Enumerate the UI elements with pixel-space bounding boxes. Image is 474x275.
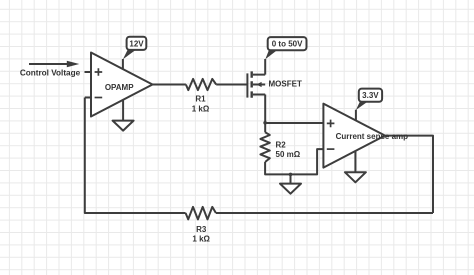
svg-text:Control Voltage: Control Voltage	[20, 68, 81, 77]
control voltage input arrow	[29, 61, 79, 68]
wire V+ pin of OPAMP	[122, 59, 124, 69]
resistor R3	[186, 207, 216, 220]
wire OPAMP - input stub	[85, 97, 91, 99]
op-amp current sense amp (U2)	[323, 104, 385, 168]
wire MOSFET drain up	[264, 59, 266, 75]
svg-text:1 kΩ: 1 kΩ	[192, 234, 210, 243]
wire ground stem at R2 bottom	[290, 174, 292, 183]
power label 3.3V callout	[356, 89, 382, 110]
wire R3 to right vertical	[216, 212, 433, 214]
node junction at R2 bottom	[289, 173, 293, 177]
svg-text:0 to 50V: 0 to 50V	[272, 40, 303, 49]
wire V+ pin of current sense amp	[355, 110, 357, 121]
resistor R2	[260, 132, 269, 162]
svg-text:Current sense amp: Current sense amp	[336, 132, 409, 141]
power label 12V callout	[123, 37, 146, 60]
wire + input stub of OPAMP	[85, 71, 92, 73]
wire feedback left vertical and bottom run to R3	[85, 98, 186, 214]
svg-text:3.3V: 3.3V	[362, 91, 379, 100]
svg-text:R1: R1	[195, 95, 206, 104]
svg-text:R2: R2	[276, 141, 287, 150]
svg-text:MOSFET: MOSFET	[269, 79, 302, 88]
wire MOSFET source down to junction and R2	[264, 95, 266, 133]
svg-text:R3: R3	[196, 225, 207, 234]
svg-text:50 mΩ: 50 mΩ	[276, 150, 301, 159]
wire junction to + input of current sense amp	[265, 122, 323, 124]
svg-text:OPAMP: OPAMP	[105, 83, 134, 92]
wire current sense amp output to right and down	[385, 136, 433, 213]
power label 0 to 50V callout	[265, 37, 306, 59]
svg-text:1 kΩ: 1 kΩ	[192, 104, 210, 113]
resistor R1	[186, 79, 216, 90]
ground under current sense amp	[345, 172, 366, 182]
ground at R2 bottom	[280, 184, 301, 194]
ground under OPAMP	[113, 121, 134, 131]
op-amp OPAMP (U1)	[91, 53, 153, 117]
svg-text:12V: 12V	[129, 39, 144, 48]
node junction at MOSFET source	[263, 121, 267, 125]
wire V- pin of OPAMP	[122, 100, 124, 120]
wire R1 to MOSFET gate	[216, 84, 247, 86]
wire OPAMP output to R1	[153, 84, 186, 86]
wire R2 bottom run	[265, 149, 323, 174]
wire V- pin of current sense amp	[354, 152, 356, 173]
transistor MOSFET (Q1)	[247, 71, 265, 97]
